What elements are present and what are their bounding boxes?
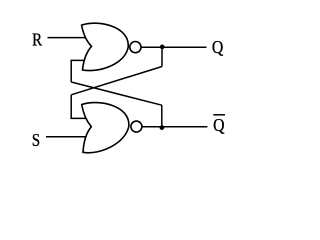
wire vertical to top junction bbox=[161, 47, 163, 67]
wire Q output bbox=[142, 46, 207, 48]
svg-text:Q: Q bbox=[213, 115, 224, 135]
svg-text:R: R bbox=[32, 30, 42, 50]
junction node Q bbox=[160, 45, 165, 50]
wire vertical to bottom junction bbox=[161, 105, 163, 127]
wire Q-bar output bbox=[142, 126, 207, 128]
wire cross diagonal B (U2 output to U1 input) bbox=[71, 82, 162, 105]
U1 inversion bubble bbox=[130, 42, 141, 53]
wire S input bbox=[46, 136, 87, 138]
overline of Q-bar bbox=[213, 114, 225, 116]
junction node Q-bar bbox=[160, 125, 165, 130]
wire cross diagonal A (U1 output to U2 input) bbox=[71, 67, 162, 95]
wire top feedback input (into U1 lower input) bbox=[71, 60, 88, 82]
wire R input bbox=[48, 37, 88, 39]
U2 inversion bubble bbox=[131, 121, 142, 132]
svg-text:Q: Q bbox=[212, 37, 223, 57]
svg-text:S: S bbox=[32, 130, 40, 150]
NOR gate U1 (top) body bbox=[82, 23, 129, 70]
NOR gate U2 (bottom) body bbox=[82, 103, 129, 153]
wire bottom feedback input (into U2 upper input) bbox=[71, 95, 88, 119]
